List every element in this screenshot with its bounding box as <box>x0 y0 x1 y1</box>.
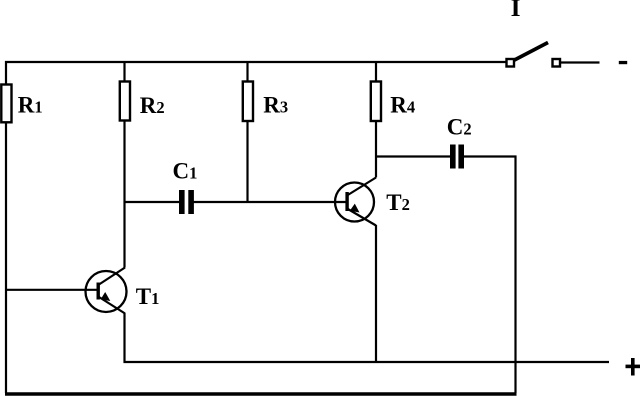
svg-text:R3: R3 <box>263 93 288 118</box>
label plus terminal <box>626 358 640 376</box>
svg-text:I: I <box>511 0 521 22</box>
label R4 <box>390 93 415 118</box>
wire C2 output <box>375 155 517 157</box>
svg-text:R4: R4 <box>390 93 415 118</box>
wire R2/T1-collector branch <box>123 61 125 268</box>
capacitor C2 <box>450 145 464 169</box>
label minus terminal <box>619 61 627 64</box>
wire T2 emitter branch <box>375 225 377 363</box>
wire T1 emitter branch <box>123 313 125 363</box>
wire top rail <box>5 61 507 63</box>
label T2 <box>386 190 410 215</box>
label T1 <box>136 284 160 309</box>
label I (switch) <box>511 0 521 22</box>
svg-text:C1: C1 <box>173 159 198 184</box>
capacitor C1 <box>179 190 194 214</box>
wire left rail <box>5 61 7 393</box>
switch lever <box>514 43 549 61</box>
label C2 <box>447 115 472 140</box>
svg-text:T2: T2 <box>386 190 410 215</box>
switch fixed contact <box>553 59 561 67</box>
svg-text:T1: T1 <box>136 284 160 309</box>
switch (key) pivot contact <box>507 59 515 67</box>
label C1 <box>173 159 198 184</box>
wire switch to minus terminal <box>560 61 600 63</box>
wire C1 coupling (base of T2) <box>124 201 348 203</box>
transistor T1 <box>86 268 127 314</box>
resistor R2 <box>120 82 130 121</box>
label R3 <box>263 93 288 118</box>
svg-text:R2: R2 <box>140 93 165 118</box>
wire right feedback branch <box>514 156 516 394</box>
svg-text:C2: C2 <box>447 115 472 140</box>
wire bottom feedback line <box>5 392 517 395</box>
wire R3 branch <box>246 61 248 203</box>
label R1 <box>18 93 43 118</box>
wire T1 base <box>5 289 98 291</box>
wire R4/T2-collector branch <box>375 61 377 178</box>
label R2 <box>140 93 165 118</box>
resistor R1 <box>1 85 11 123</box>
transistor T2 <box>335 178 376 226</box>
resistor R3 <box>243 82 253 122</box>
resistor R4 <box>371 82 381 122</box>
svg-text:R1: R1 <box>18 93 43 118</box>
wire plus rail <box>124 361 610 363</box>
